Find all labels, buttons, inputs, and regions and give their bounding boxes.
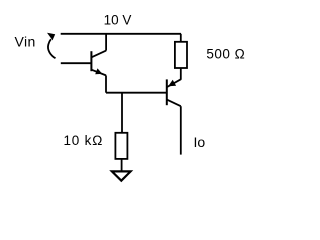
transistor Q2 (PNP) bbox=[167, 79, 181, 106]
svg-text:500 Ω: 500 Ω bbox=[206, 46, 245, 61]
wire resistor R1 to ground bbox=[121, 159, 123, 171]
svg-text:10 V: 10 V bbox=[104, 12, 132, 27]
svg-text:10 kΩ: 10 kΩ bbox=[64, 133, 104, 148]
label 500 ohm bbox=[206, 46, 245, 61]
wire rail down to resistor R2 bbox=[180, 34, 182, 43]
wire Q2 collector down (Io) bbox=[180, 106, 182, 154]
wire node down to resistor R1 bbox=[121, 93, 123, 133]
label 10 V bbox=[104, 12, 132, 27]
label Io bbox=[194, 134, 206, 150]
wire Q1 emitter down bbox=[105, 75, 107, 92]
wire Vin to Q1 base bbox=[61, 62, 92, 64]
svg-text:Vin: Vin bbox=[15, 34, 36, 50]
ground bbox=[112, 171, 131, 180]
transistor Q1 (NPN) bbox=[91, 51, 106, 76]
svg-text:Io: Io bbox=[194, 134, 206, 150]
wire Q1 collector to rail bbox=[105, 34, 107, 51]
resistor R2 500 ohm bbox=[175, 42, 187, 68]
wire top 10V rail bbox=[61, 33, 181, 35]
wire emitter node to Q2 base bbox=[106, 92, 167, 94]
label Vin bbox=[15, 34, 36, 50]
wire resistor R2 to Q2 emitter bbox=[180, 68, 182, 80]
Vin curved arrow bbox=[47, 33, 56, 59]
resistor R1 10 kohm bbox=[115, 133, 127, 159]
label 10 kohm bbox=[64, 133, 104, 148]
